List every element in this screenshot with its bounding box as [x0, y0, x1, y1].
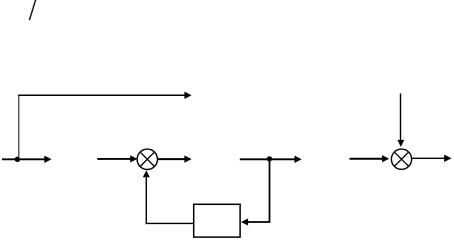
arrowhead into S1	[130, 155, 137, 162]
wire: left input line	[2, 158, 45, 160]
arrowhead of left input	[44, 156, 51, 163]
summing junction S2 (circle with X)	[391, 149, 411, 169]
wire: output of S2	[411, 157, 444, 159]
arrowhead of top branch	[184, 92, 191, 99]
wire: second forward segment	[240, 158, 295, 160]
wire: feedback out of box left side	[146, 222, 194, 224]
arrowhead into S2 left	[382, 155, 389, 162]
wire: into summing junction S1	[97, 158, 131, 160]
wire: vertical drop into S2 top	[400, 94, 402, 141]
arrowhead into feedback box	[241, 219, 248, 226]
wire: feedback tap vertical down from node	[269, 159, 271, 222]
node dot (output branch junction)	[267, 156, 272, 161]
feedback box G	[194, 204, 240, 237]
arrowhead up into S1 bottom	[143, 170, 150, 177]
arrowhead down into S2 top	[397, 140, 404, 147]
wire: right input into summing junction S2	[350, 158, 383, 160]
stray diagonal stroke top-left	[29, 0, 35, 20]
summing junction S1 (circle with X)	[137, 149, 157, 169]
wire: out of S1	[158, 158, 185, 160]
node dot (input branch junction)	[15, 157, 20, 162]
arrowhead of final output	[444, 155, 451, 162]
wire: branch vertical from top line down to input node	[18, 95, 20, 157]
wire: top horizontal branch line	[18, 94, 185, 96]
arrowhead out of S1	[184, 155, 191, 162]
wire: feedback horizontal into box right side	[248, 221, 271, 223]
arrowhead of second segment	[295, 156, 302, 163]
wire: feedback vertical up to S1	[145, 176, 147, 224]
